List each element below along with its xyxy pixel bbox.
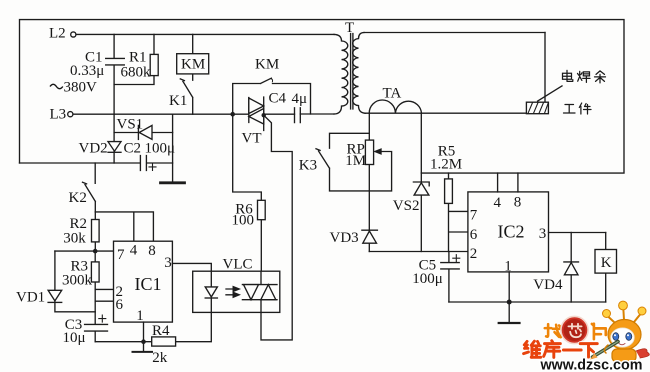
svg-text:4μ: 4μ <box>292 91 308 107</box>
svg-text:30k: 30k <box>63 230 86 246</box>
svg-text:TA: TA <box>383 86 402 102</box>
svg-text:2: 2 <box>470 246 478 262</box>
svg-text:10μ: 10μ <box>63 330 86 346</box>
svg-text:6: 6 <box>116 297 124 313</box>
svg-text:K1: K1 <box>169 93 187 109</box>
svg-text:300k: 300k <box>62 272 93 288</box>
svg-text:IC1: IC1 <box>135 274 162 294</box>
svg-text:4: 4 <box>130 243 138 259</box>
svg-text:VD3: VD3 <box>330 230 359 246</box>
svg-text:L3: L3 <box>50 107 67 123</box>
svg-text:6: 6 <box>470 227 478 243</box>
svg-text:1.2M: 1.2M <box>430 157 462 173</box>
svg-text:R4: R4 <box>152 323 170 339</box>
svg-text:L2: L2 <box>49 26 66 42</box>
svg-text:T: T <box>345 20 354 36</box>
svg-text:VS1: VS1 <box>117 117 144 133</box>
svg-text:R1: R1 <box>129 50 147 66</box>
svg-text:www.dzsc.com: www.dzsc.com <box>540 358 643 372</box>
svg-text:VD2: VD2 <box>79 141 108 157</box>
svg-text:C2: C2 <box>124 141 142 157</box>
svg-text:K3: K3 <box>299 157 317 173</box>
svg-text:7: 7 <box>470 207 478 223</box>
svg-text:8: 8 <box>148 243 156 259</box>
svg-text:100: 100 <box>232 212 255 228</box>
svg-text:380V: 380V <box>64 80 98 96</box>
svg-text:2k: 2k <box>152 350 168 366</box>
svg-text:8: 8 <box>514 195 522 211</box>
svg-text:VS2: VS2 <box>393 198 420 214</box>
svg-text:4: 4 <box>494 195 502 211</box>
svg-text:100μ: 100μ <box>145 141 176 157</box>
svg-text:K2: K2 <box>69 190 87 206</box>
svg-text:VD1: VD1 <box>16 289 45 305</box>
svg-text:3: 3 <box>164 255 172 271</box>
svg-text:VD4: VD4 <box>533 277 563 293</box>
svg-text:VLC: VLC <box>223 257 253 273</box>
svg-text:KM: KM <box>255 57 279 73</box>
svg-text:1: 1 <box>504 259 512 275</box>
svg-text:VT: VT <box>242 130 262 146</box>
svg-text:3: 3 <box>539 226 547 242</box>
svg-text:0.33μ: 0.33μ <box>70 63 104 79</box>
svg-text:K: K <box>601 255 612 271</box>
svg-text:C4: C4 <box>269 90 287 106</box>
svg-text:100μ: 100μ <box>412 271 443 287</box>
svg-text:1M: 1M <box>345 153 366 169</box>
svg-text:IC2: IC2 <box>498 222 525 242</box>
svg-text:680k: 680k <box>121 64 152 80</box>
svg-text:1: 1 <box>136 308 144 324</box>
svg-text:7: 7 <box>117 247 125 263</box>
svg-text:KM: KM <box>181 57 205 73</box>
